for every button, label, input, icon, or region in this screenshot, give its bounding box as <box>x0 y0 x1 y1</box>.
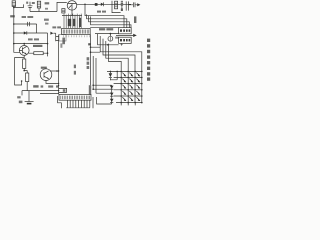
wire Q3 right <box>50 70 59 72</box>
label 422 <box>62 38 65 45</box>
label 220 <box>134 16 136 23</box>
node A <box>13 7 15 9</box>
label YD <box>33 45 42 47</box>
wire y24 <box>14 24 37 33</box>
crystal X1 <box>126 1 128 10</box>
label R1 <box>10 15 15 17</box>
wire x47 <box>47 33 49 56</box>
capacitor C6 <box>108 34 119 42</box>
diode D1 <box>24 31 27 34</box>
capacitor near vA <box>88 43 91 45</box>
wire u6 col1 <box>108 44 121 103</box>
wire pin stubs <box>56 33 59 41</box>
wire Q3 emitter <box>46 80 59 83</box>
wire mid vertical <box>58 35 60 95</box>
resistor pack dark3 <box>79 18 81 27</box>
wire rail1 <box>22 91 59 96</box>
arrow into U1 <box>50 32 55 35</box>
label JT-881 <box>22 16 26 18</box>
wire U2 loop top <box>59 88 67 92</box>
resistor R5 <box>29 52 48 55</box>
wire bus w4 <box>91 16 131 27</box>
node x47 y53 <box>47 52 49 54</box>
node mid2 <box>58 83 59 84</box>
node chain2 <box>92 88 94 90</box>
wire bus w2 <box>87 14 127 27</box>
resistor row tops <box>62 14 82 29</box>
matrix row r5 <box>114 95 142 97</box>
resistor R6 <box>23 59 26 71</box>
node u1 <box>110 33 112 35</box>
wire feed vB <box>92 56 94 89</box>
node y43 left <box>13 43 15 45</box>
wire x117 <box>110 71 117 79</box>
wire vA stubs <box>91 47 101 52</box>
matrix cell diodes <box>122 73 140 101</box>
wire rail2 <box>40 93 59 95</box>
wire feed vC <box>95 58 97 93</box>
label 181b <box>74 71 76 75</box>
antenna arrow <box>137 3 140 6</box>
wire mid top <box>30 2 67 11</box>
wire comb bus <box>66 107 90 109</box>
box K2 <box>119 37 132 43</box>
matrix row r1 <box>107 70 142 72</box>
node u2 <box>107 44 109 46</box>
resistor R3 <box>62 9 65 13</box>
node mid1 <box>58 70 59 71</box>
U1 pin numbers <box>64 35 90 37</box>
battery BT1 <box>25 91 34 104</box>
arrow out <box>133 34 137 37</box>
resistor pack dark2 <box>73 19 75 26</box>
wire Q1 emitter <box>23 55 25 59</box>
label vertical right <box>147 39 150 81</box>
wire diode row <box>14 32 48 34</box>
wire bus w5 <box>90 27 118 29</box>
matrix col stubs <box>121 103 135 106</box>
wire U2 right pins <box>93 97 112 108</box>
wire U2 bracket <box>58 96 62 108</box>
label 4.5V <box>17 96 20 98</box>
wire u4 col3 <box>103 39 135 103</box>
node loop <box>21 80 23 82</box>
matrix junction dots <box>120 71 142 104</box>
IC U1 <box>62 28 91 34</box>
wire bus w3 <box>89 15 130 27</box>
wire chain vertical <box>111 85 113 104</box>
node chain <box>92 84 94 86</box>
label 1N4148 <box>28 38 33 40</box>
transistor Q1 <box>19 44 29 56</box>
wire left rail <box>14 6 20 52</box>
label chip name <box>99 28 105 30</box>
label 9V <box>33 85 38 87</box>
node mid4 <box>58 90 59 91</box>
wire u5 col2 <box>106 41 128 103</box>
matrix row r6 <box>116 102 142 104</box>
label above U1 <box>52 26 56 28</box>
diode D4 <box>110 93 114 97</box>
label Q3 <box>41 67 47 69</box>
matrix row r4 <box>114 89 142 91</box>
label 17 <box>60 43 62 47</box>
label vertical mid <box>87 57 90 60</box>
wire top-left branch <box>14 4 24 7</box>
diode DM0 <box>109 71 113 81</box>
wire y43 <box>14 43 48 45</box>
wire u1 <box>95 33 119 35</box>
node top rail <box>84 4 86 6</box>
node vA2 <box>90 51 92 53</box>
wire bus w1 <box>85 4 124 27</box>
node mid3 <box>58 85 59 86</box>
resistor pack dark1 <box>68 19 71 26</box>
diode D3 <box>110 86 114 90</box>
wire between boxes <box>116 34 133 36</box>
capacitor C1 <box>26 2 35 12</box>
node vA1 <box>90 46 92 48</box>
wire u3 col4 <box>100 36 142 103</box>
IC U2 <box>59 94 91 100</box>
wire u2 <box>98 34 119 45</box>
wire feed vA <box>90 35 92 86</box>
diode D2 <box>101 2 104 6</box>
resistor R1 <box>12 1 16 7</box>
label cap U2 <box>63 89 66 92</box>
label C2 <box>44 19 49 21</box>
matrix row r2 <box>114 76 142 78</box>
capacitor C3 <box>95 3 98 6</box>
crystal X2 <box>28 22 30 26</box>
diode D5 <box>110 99 114 103</box>
label 2.2k <box>89 85 91 95</box>
label 1k <box>45 2 50 4</box>
capacitor C5 <box>128 2 137 7</box>
wire right column <box>112 1 121 13</box>
node y33 <box>13 32 15 34</box>
node Q3 right <box>56 70 58 72</box>
box K1 <box>119 28 132 34</box>
resistor R4 <box>115 1 118 9</box>
transistor Q2 <box>67 1 77 16</box>
capacitor C4 <box>121 1 123 11</box>
node x117 <box>116 71 118 73</box>
node x24 y70 <box>23 70 25 72</box>
node Q1 top <box>23 43 25 45</box>
box U1b <box>59 34 66 41</box>
wire chain hlines <box>93 85 112 93</box>
label power row <box>41 85 44 87</box>
label under D2 <box>97 11 101 13</box>
plus mark <box>121 43 123 45</box>
resistor R7 <box>26 73 29 91</box>
resistor R2 <box>37 1 40 11</box>
label 181a <box>74 65 76 69</box>
wire jog <box>24 71 27 73</box>
U2 pins comb <box>67 100 89 107</box>
wire left loop <box>15 57 25 85</box>
transistor Q3 <box>40 69 52 81</box>
matrix row r3 <box>114 83 142 85</box>
node y24 <box>13 23 15 25</box>
node x47 y43 <box>47 43 49 45</box>
wire top rail <box>77 3 131 5</box>
